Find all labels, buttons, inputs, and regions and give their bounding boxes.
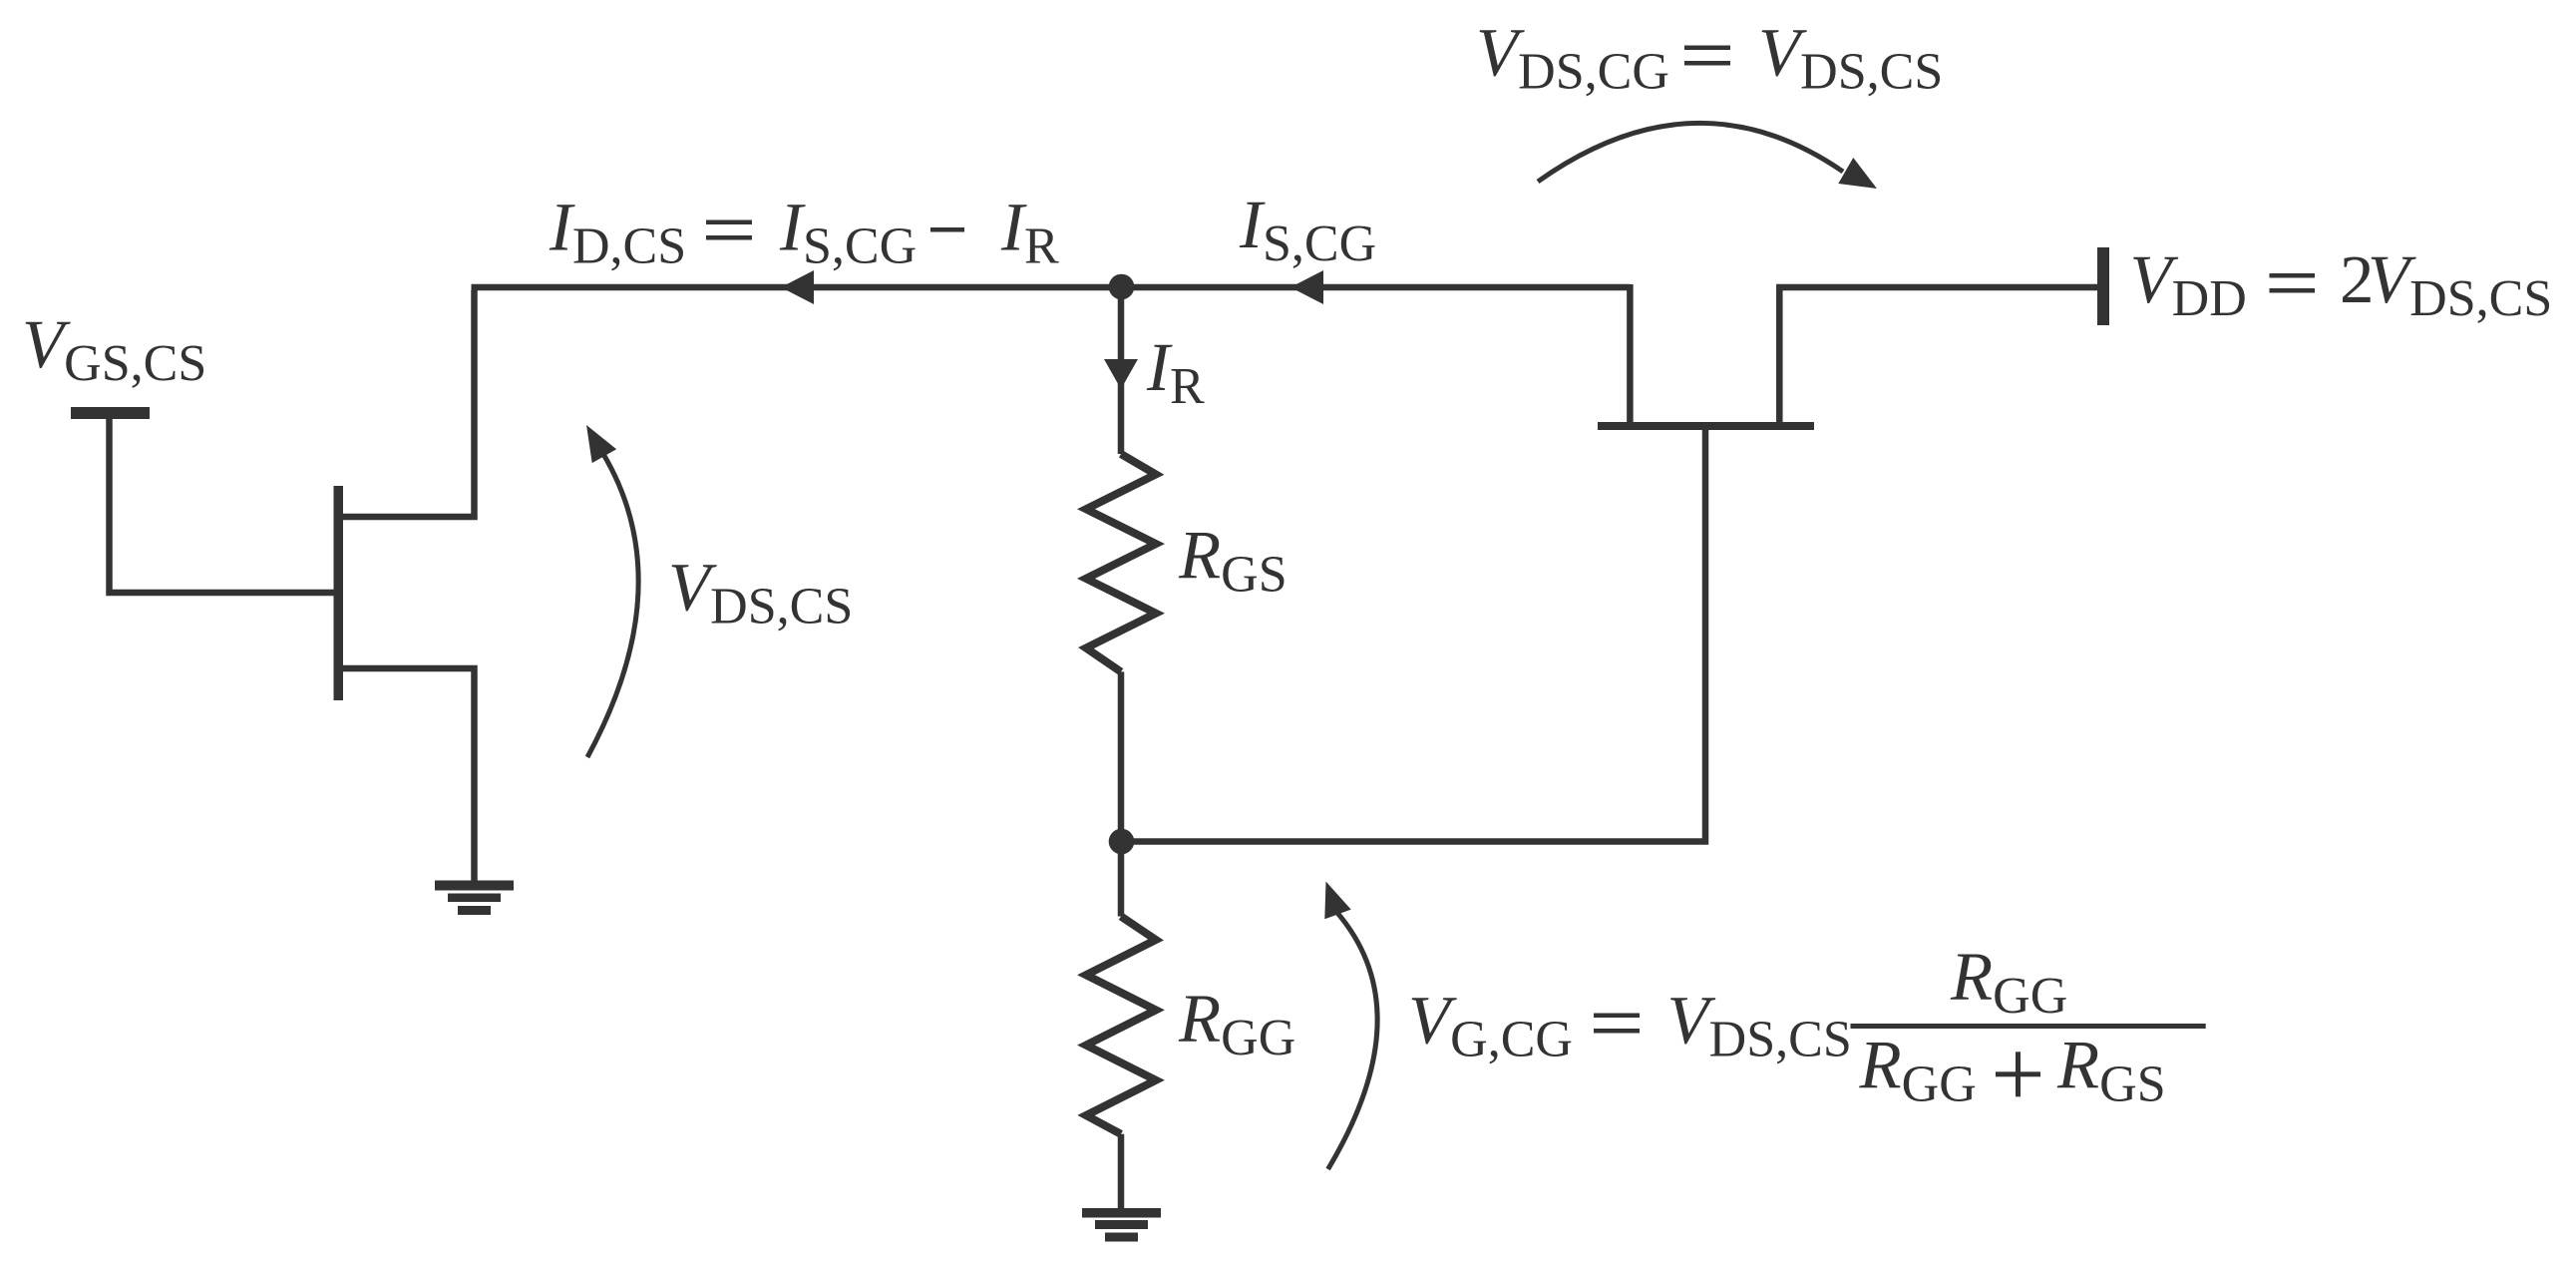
current arrow ID,CS xyxy=(781,270,814,304)
wire VGS,CS stem to gate xyxy=(110,419,334,593)
M2 source leg xyxy=(1627,284,1634,422)
loop arrow VG,CG (bottom) xyxy=(1328,913,1378,1169)
M1 drain lead xyxy=(343,290,475,517)
resistor RGS xyxy=(1086,454,1156,671)
voltage source VGS,CS battery bar xyxy=(71,407,150,419)
loop arrow VDS,CS (left) xyxy=(587,446,638,757)
wire RGS to node B xyxy=(1118,671,1125,842)
current arrow IR xyxy=(1104,359,1138,389)
M2 drain leg xyxy=(1779,287,2097,422)
ground (RGG) xyxy=(1082,1208,1161,1242)
wire node B to gate of M2 xyxy=(1122,430,1706,842)
top wire (drain node rail) xyxy=(472,284,1631,291)
ground (M1 source) xyxy=(435,881,514,916)
resistor RGG xyxy=(1086,917,1156,1134)
node B (RGS/RGG junction) xyxy=(1109,829,1135,855)
wire RGG to ground xyxy=(1118,1134,1125,1209)
fraction bar xyxy=(1851,1024,2206,1029)
M1 source lead xyxy=(343,668,475,882)
loop arrow VDS,CG = VDS,CS (top) xyxy=(1538,123,1843,182)
wire node B to RGG xyxy=(1118,842,1125,917)
transistor M1 (common-source) channel bar xyxy=(334,486,344,700)
current arrow IS,CG xyxy=(1290,270,1323,304)
transistor M2 (common-gate) channel bar xyxy=(1598,422,1814,430)
voltage source VDD battery bar xyxy=(2097,247,2109,325)
node A (top junction) xyxy=(1109,274,1135,300)
wire node A to RGS xyxy=(1118,287,1125,454)
